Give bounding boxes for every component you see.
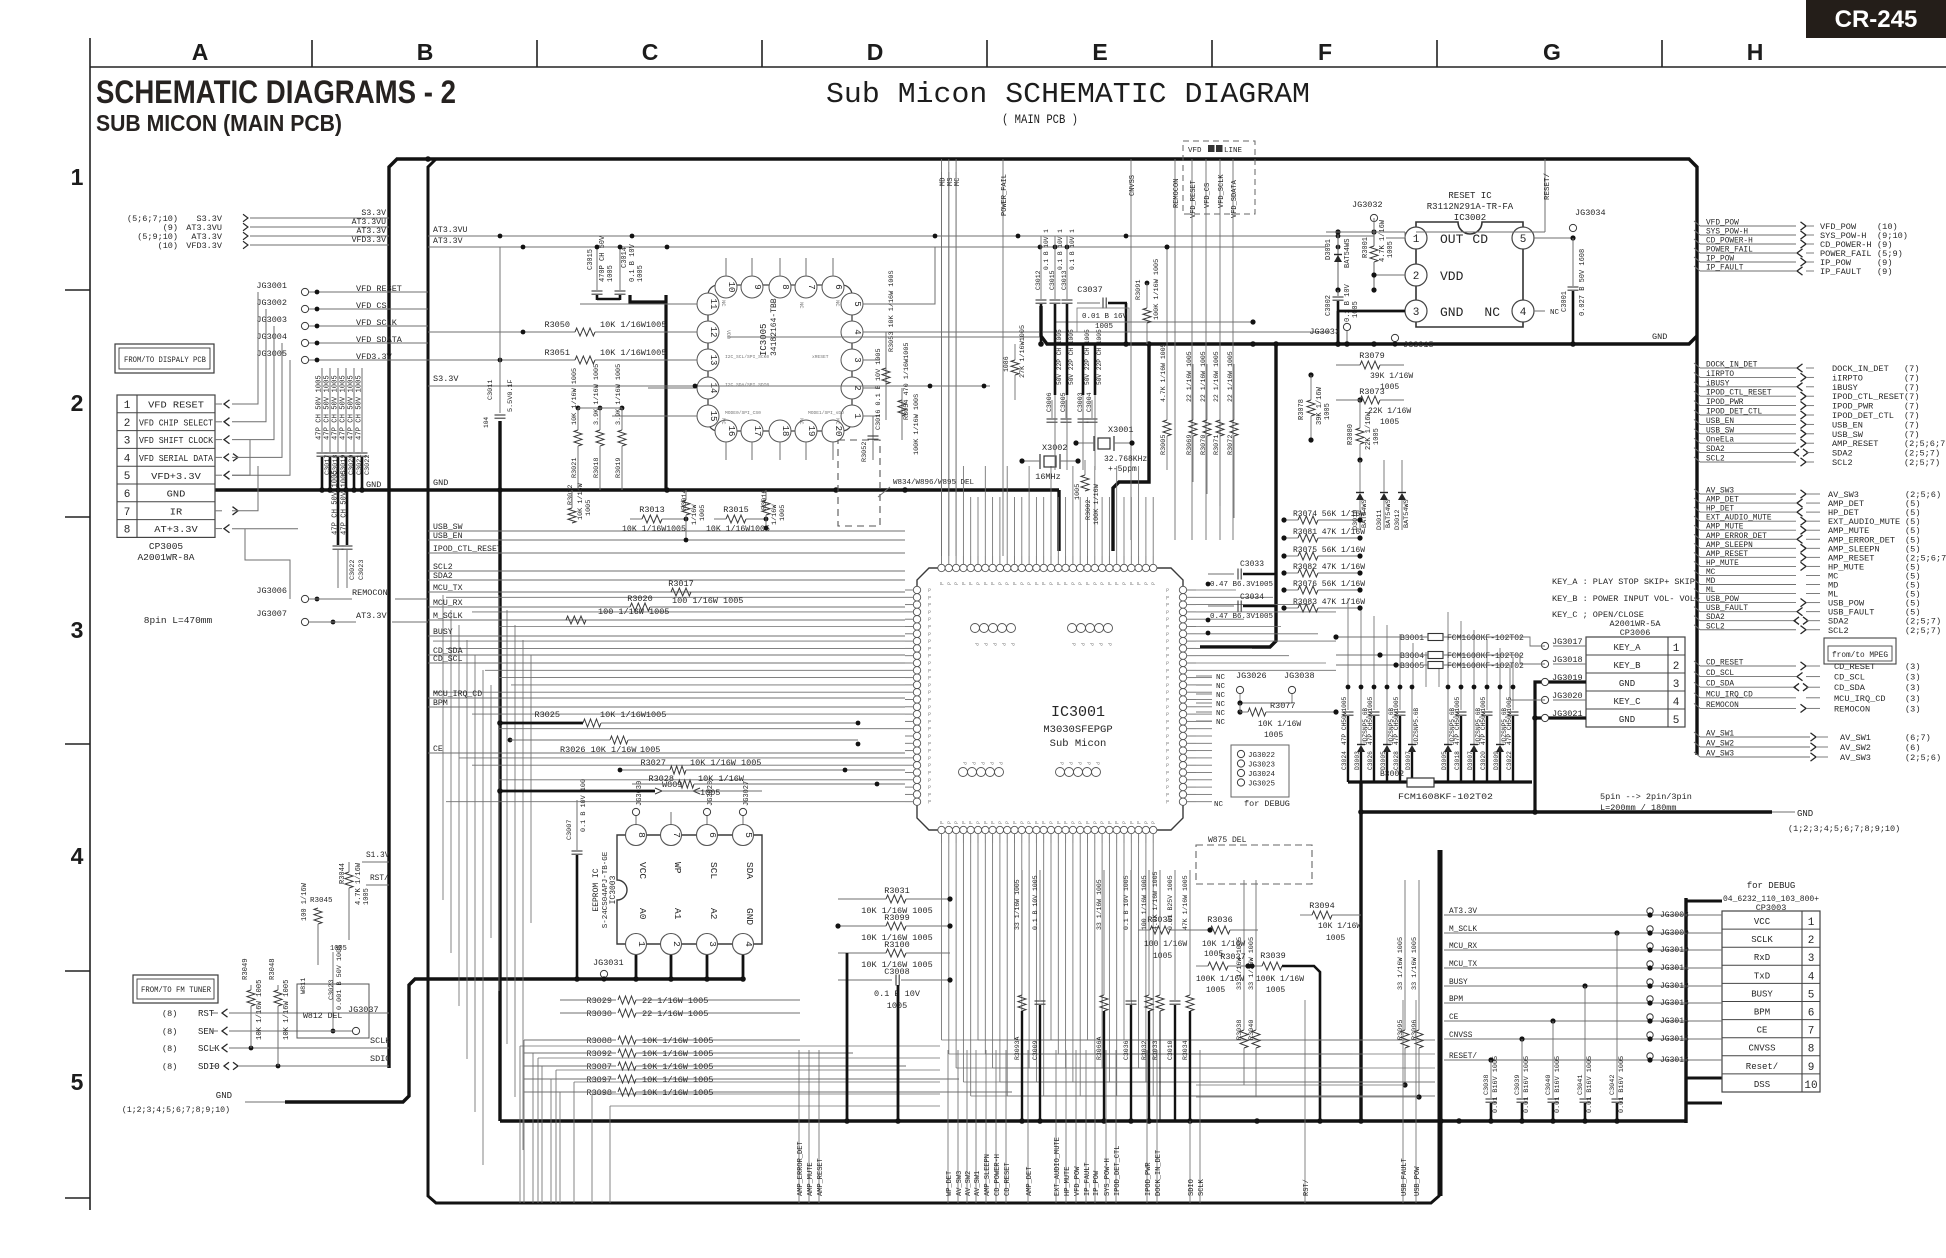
svg-text:P: P — [928, 661, 931, 667]
bus: diode array bottom rail y=782 — [1348, 780, 1407, 783]
svg-text:SYS_POW-H: SYS_POW-H — [1706, 229, 1748, 237]
svg-text:(8): (8) — [162, 1044, 177, 1054]
svg-text:P: P — [1093, 582, 1099, 585]
svg-text:C3014: C3014 — [621, 247, 629, 268]
pin count note 5pin 2pin/3pin — [1600, 792, 1692, 813]
IC3005 top pins 10-6 — [715, 258, 844, 298]
svg-text:10K 1/16W: 10K 1/16W — [1258, 720, 1301, 729]
ferrite bead B3002 — [1380, 770, 1493, 802]
svg-text:SCHEMATIC DIAGRAMS - 2: SCHEMATIC DIAGRAMS - 2 — [96, 74, 456, 110]
svg-text:B3002: B3002 — [1380, 770, 1404, 779]
svg-text:6: 6 — [124, 489, 131, 501]
svg-text:47P CH 50V 1005: 47P CH 50V 1005 — [332, 375, 340, 440]
svg-text:P: P — [1020, 821, 1026, 824]
svg-text:47P CH50V1005: 47P CH50V1005 — [1393, 696, 1400, 745]
svg-text:22 1/16W 1005: 22 1/16W 1005 — [1213, 351, 1220, 402]
svg-text:(8): (8) — [162, 1009, 177, 1019]
svg-text:C3015: C3015 — [1049, 270, 1056, 290]
IC3005 bottom pins 16-20 — [715, 420, 844, 460]
svg-text:0.001 B 50V 1005: 0.001 B 50V 1005 — [336, 945, 344, 1010]
svg-text:1005: 1005 — [1387, 241, 1395, 258]
svg-text:10: 10 — [1804, 1080, 1817, 1092]
IC U IC3002 RESET IC R3112N291A-TR-FA — [1416, 191, 1523, 327]
svg-text:RxD: RxD — [1754, 953, 1770, 963]
svg-text:P: P — [928, 749, 931, 755]
svg-text:NC: NC — [1214, 801, 1224, 809]
svg-text:USB_POW: USB_POW — [1706, 596, 1739, 604]
wire RST to bus A2 — [229, 1012, 389, 1014]
svg-text:1086: 1086 — [1003, 356, 1010, 372]
svg-text:SDA2: SDA2 — [1706, 614, 1725, 622]
resistors R3044 R3045 near FM tuner — [301, 852, 390, 1010]
svg-text:10K 1/16W 1005: 10K 1/16W 1005 — [256, 980, 264, 1040]
svg-text:P: P — [1166, 734, 1169, 740]
svg-text:MD: MD — [1706, 578, 1716, 586]
svg-text:C3037: C3037 — [1077, 285, 1103, 295]
svg-text:H: H — [1747, 39, 1764, 65]
svg-text:P: P — [1056, 582, 1062, 585]
svg-text:W812 DEL: W812 DEL — [303, 1012, 342, 1021]
svg-text:P: P — [1137, 821, 1143, 824]
svg-text:AV_SW3: AV_SW3 — [956, 1171, 964, 1196]
bus: DEBUG connector stubs — [1686, 901, 1722, 1103]
svg-text:D: D — [867, 39, 884, 65]
svg-text:C3023: C3023 — [358, 560, 366, 580]
resistor R3079 39K horizontal — [1336, 351, 1413, 392]
svg-text:P: P — [1166, 690, 1169, 696]
svg-text:3: 3 — [852, 357, 862, 362]
svg-text:10K 1/16W1005: 10K 1/16W1005 — [600, 710, 666, 720]
svg-text:P: P — [928, 705, 931, 711]
CR-245 model label box — [1806, 0, 1946, 38]
svg-text:AV_SW1: AV_SW1 — [974, 1171, 982, 1196]
svg-text:(3): (3) — [1905, 662, 1920, 672]
svg-text:1: 1 — [1808, 917, 1815, 929]
svg-text:P: P — [969, 821, 975, 824]
svg-text:1: 1 — [124, 400, 131, 412]
svg-text:P: P — [970, 762, 976, 765]
capacitors C3015 C3014 above IC3005 — [587, 235, 645, 300]
label W834/W896/W895 DEL — [878, 479, 975, 497]
resistor R3073 22K horizontal — [1336, 387, 1411, 427]
wires from B300x to KEY jumpers — [1462, 637, 1545, 700]
svg-text:VFD_SCLK: VFD_SCLK — [1218, 174, 1226, 208]
svg-text:(2;5;7): (2;5;7) — [1905, 626, 1941, 636]
svg-text:IPOD_PWR: IPOD_PWR — [1145, 1162, 1153, 1196]
svg-text:R3025: R3025 — [534, 710, 560, 720]
label box FROM/TO FM TUNER — [133, 975, 218, 1003]
svg-text:Sub Micon: Sub Micon — [1050, 738, 1107, 750]
svg-text:AT3.3V: AT3.3V — [433, 237, 463, 246]
svg-text:5.5V0.1F: 5.5V0.1F — [507, 379, 515, 412]
svg-text:R3096: R3096 — [1411, 1020, 1419, 1040]
svg-text:47P CH 50V 1005: 47P CH 50V 1005 — [332, 470, 340, 535]
svg-text:CD_POWER-H: CD_POWER-H — [994, 1154, 1002, 1196]
svg-text:REMOCON: REMOCON — [1706, 702, 1739, 710]
svg-text:R3026 10K 1/16W: R3026 10K 1/16W — [560, 745, 637, 755]
svg-text:18: 18 — [780, 426, 790, 437]
svg-text:NC: NC — [1216, 719, 1226, 727]
svg-text:AV_SW3: AV_SW3 — [1706, 488, 1734, 496]
DEBUG connector header labels — [1723, 881, 1819, 913]
svg-text:R3094: R3094 — [1309, 901, 1335, 911]
svg-text:22 1/16W 1005: 22 1/16W 1005 — [1227, 351, 1234, 402]
svg-text:R3049: R3049 — [242, 958, 250, 980]
svg-text:P: P — [1100, 821, 1106, 824]
svg-text:LINE: LINE — [1224, 147, 1243, 155]
svg-text:R3071: R3071 — [1213, 435, 1221, 455]
svg-text:JG3030: JG3030 — [636, 781, 644, 806]
svg-text:P: P — [1049, 821, 1055, 824]
IC3001 bottom pin circles — [938, 826, 1157, 833]
svg-text:P: P — [1078, 821, 1084, 824]
column boundary ticks — [312, 40, 1662, 67]
IC3001 inner test pads top — [971, 624, 1113, 647]
svg-text:8: 8 — [636, 832, 647, 838]
svg-text:IC3001: IC3001 — [1051, 704, 1105, 721]
svg-text:AMP_RESET: AMP_RESET — [817, 1158, 825, 1196]
svg-text:JG3007: JG3007 — [256, 609, 287, 619]
svg-text:NC: NC — [1216, 683, 1226, 691]
svg-text:NC: NC — [834, 418, 841, 425]
svg-text:CD_POWER-H: CD_POWER-H — [1706, 238, 1753, 246]
svg-text:C3023: C3023 — [328, 980, 336, 1000]
svg-text:FCM1608KF-102T02: FCM1608KF-102T02 — [1398, 792, 1493, 802]
svg-text:W811: W811 — [300, 978, 308, 994]
bus: DEBUG ground riser x=1686 — [1684, 898, 1687, 1123]
svg-text:3.9K 1/16W 1005: 3.9K 1/16W 1005 — [615, 364, 623, 425]
svg-text:22 1/16W 1005: 22 1/16W 1005 — [1186, 351, 1193, 402]
svg-text:GND: GND — [366, 480, 381, 490]
svg-text:1/16W: 1/16W — [691, 504, 699, 525]
svg-text:AMP_SLEEPN: AMP_SLEEPN — [984, 1154, 992, 1196]
svg-text:1005: 1005 — [363, 888, 371, 905]
svg-text:UDZSNP5.6B: UDZSNP5.6B — [1413, 708, 1420, 745]
svg-text:P: P — [940, 821, 946, 824]
svg-text:8: 8 — [780, 284, 790, 289]
EEPROM top pins 8-5 VCC WP SCL SDA — [626, 812, 756, 879]
svg-text:P: P — [1166, 683, 1169, 689]
svg-text:OUT: OUT — [1440, 232, 1464, 247]
svg-text:RESET/: RESET/ — [1449, 1053, 1477, 1061]
svg-text:EXT_AUDIO_MUTE: EXT_AUDIO_MUTE — [1706, 515, 1772, 523]
svg-text:WP: WP — [672, 862, 683, 874]
svg-text:1005: 1005 — [1266, 986, 1285, 995]
svg-text:R3005: R3005 — [1160, 435, 1168, 455]
thick cap drops below GND rail — [1055, 329, 1103, 470]
svg-text:R3097: R3097 — [586, 1075, 612, 1085]
svg-text:470P CH 50V: 470P CH 50V — [599, 235, 607, 282]
bus: GND rail right (y=812) to GND label — [1361, 810, 1772, 813]
svg-text:7: 7 — [806, 284, 816, 289]
svg-text:100 1/16W 1005: 100 1/16W 1005 — [598, 607, 669, 617]
svg-text:P: P — [961, 582, 967, 585]
svg-text:C3026: C3026 — [1367, 751, 1374, 770]
dashed box W875 DEL — [1196, 836, 1312, 884]
resistor R3091 100K pullup — [1135, 259, 1161, 344]
svg-text:4: 4 — [852, 329, 862, 334]
IC3002 pins — [1405, 227, 1560, 322]
svg-text:(9): (9) — [1877, 267, 1892, 277]
svg-text:10K 1/16W 1005: 10K 1/16W 1005 — [571, 368, 579, 425]
svg-text:( MAIN PCB ): ( MAIN PCB ) — [1002, 112, 1078, 127]
svg-text:MCU_IRQ_CD: MCU_IRQ_CD — [1706, 691, 1753, 699]
svg-text:VFD RESET: VFD RESET — [148, 400, 204, 411]
svg-text:P: P — [973, 643, 979, 646]
svg-text:P: P — [928, 617, 931, 623]
capacitor C3037 0.01 B 16V — [1077, 285, 1129, 344]
from/to MPEG label box — [1824, 638, 1896, 664]
svg-text:P: P — [1005, 582, 1011, 585]
capacitors C3006 C3005 C3003 C3004 — [1046, 392, 1098, 422]
svg-text:6: 6 — [1808, 1008, 1815, 1020]
svg-text:C3038: C3038 — [1483, 1075, 1491, 1095]
svg-text:R3053 10K 1/16W 100S: R3053 10K 1/16W 100S — [888, 270, 896, 352]
link W809 — [497, 780, 762, 794]
svg-text:A: A — [192, 39, 209, 65]
svg-text:0.1 B 10V 1: 0.1 B 10V 1 — [1043, 229, 1050, 270]
wire fan: IC3001 right side wires — [1196, 590, 1513, 802]
svg-text:1005: 1005 — [1380, 418, 1399, 427]
svg-text:P: P — [998, 821, 1004, 824]
IC3001 left pin circles — [913, 586, 920, 805]
right signal group CD bus — [1694, 660, 1920, 715]
svg-text:P: P — [1166, 646, 1169, 652]
svg-text:R3081 47K 1/16W: R3081 47K 1/16W — [1293, 528, 1365, 537]
svg-text:16: 16 — [726, 426, 736, 437]
svg-text:NC: NC — [1216, 674, 1226, 682]
svg-text:C3041: C3041 — [1577, 1075, 1585, 1095]
svg-text:SDIO: SDIO — [370, 1054, 390, 1064]
svg-text:IP_FAULT: IP_FAULT — [1706, 265, 1744, 273]
svg-text:0.01 B 16V: 0.01 B 16V — [1082, 313, 1128, 321]
svg-text:NC: NC — [834, 300, 841, 307]
resistor ladder R3005/R3069-R3072 22 ohm — [1160, 245, 1238, 518]
svg-text:P: P — [1058, 762, 1064, 765]
svg-text:P: P — [1166, 595, 1169, 601]
svg-text:P: P — [928, 756, 931, 762]
svg-text:Sub Micon SCHEMATIC DIAGRAM: Sub Micon SCHEMATIC DIAGRAM — [826, 78, 1310, 111]
svg-text:P: P — [928, 792, 931, 798]
page border: left border line — [89, 38, 91, 1210]
caps C3012 C3015 C3013 on GND rail — [1035, 229, 1076, 344]
svg-text:P: P — [1070, 643, 1076, 646]
svg-text:0.1 B 10V 1005: 0.1 B 10V 1005 — [1123, 875, 1130, 930]
svg-text:CD: CD — [1472, 232, 1488, 247]
svg-text:for DEBUG: for DEBUG — [1747, 881, 1796, 891]
IC U IC3001 M3030SFEPGP Sub Micon body — [917, 568, 1183, 830]
bus: left GND rail (y=490) from connector — [215, 488, 1059, 491]
svg-text:3: 3 — [1808, 953, 1815, 965]
svg-text:C3020: C3020 — [1480, 751, 1487, 770]
svg-text:SEN: SEN — [198, 1027, 214, 1037]
svg-text:34182164-TBB: 34182164-TBB — [770, 298, 779, 356]
rail S3.3V from bus A2 — [428, 374, 990, 388]
svg-text:R3050: R3050 — [544, 320, 570, 330]
svg-text:P: P — [928, 610, 931, 616]
svg-text:GND: GND — [1797, 809, 1813, 819]
svg-text:P: P — [1097, 643, 1103, 646]
connector CP3006 5-pin KEY table — [1586, 637, 1685, 727]
bus: diode-array rail riser x=1361 — [1359, 782, 1362, 1121]
crystal X3001 32.768KHz — [1073, 425, 1147, 474]
svg-text:CNVSS: CNVSS — [1129, 175, 1137, 196]
svg-text:SUB MICON (MAIN PCB): SUB MICON (MAIN PCB) — [96, 110, 342, 136]
svg-text:JG3012: JG3012 — [1660, 982, 1689, 991]
svg-text:GND: GND — [1619, 679, 1635, 689]
svg-text:JG3025: JG3025 — [1248, 781, 1276, 789]
svg-text:SCLK: SCLK — [370, 1036, 391, 1046]
svg-text:10: 10 — [726, 282, 736, 293]
svg-text:2: 2 — [1673, 661, 1680, 673]
svg-text:P: P — [1094, 762, 1100, 765]
svg-text:P: P — [954, 582, 960, 585]
svg-text:47P CH50V1005: 47P CH50V1005 — [1454, 696, 1461, 745]
IC3001 right pin stubs — [1166, 588, 1196, 806]
svg-text:USB_POW: USB_POW — [1414, 1166, 1422, 1196]
svg-text:VFD3.3V: VFD3.3V — [352, 236, 386, 245]
C3011 cap on thick feed — [483, 247, 515, 428]
svg-text:P: P — [1049, 582, 1055, 585]
svg-text:CNVSS: CNVSS — [1748, 1044, 1775, 1054]
svg-text:AT3.3V: AT3.3V — [356, 611, 388, 621]
svg-text:6: 6 — [707, 832, 718, 838]
svg-text:100K 1/16W: 100K 1/16W — [1093, 483, 1101, 525]
svg-text:C3004: C3004 — [1086, 392, 1093, 412]
svg-text:P: P — [1122, 582, 1128, 585]
svg-text:100K 1/16W: 100K 1/16W — [1256, 975, 1304, 984]
svg-text:(2;5;7): (2;5;7) — [1904, 458, 1940, 468]
svg-text:RST: RST — [198, 1009, 215, 1019]
svg-text:SCL2: SCL2 — [1706, 623, 1725, 631]
svg-text:P: P — [1086, 821, 1092, 824]
capacitor C3007 at EEPROM — [566, 779, 588, 982]
svg-text:P: P — [1093, 821, 1099, 824]
wire SEN to JG3037 — [229, 1030, 351, 1032]
svg-text:P: P — [928, 690, 931, 696]
svg-text:1: 1 — [1413, 234, 1420, 246]
svg-text:P: P — [947, 821, 953, 824]
svg-text:JG3037: JG3037 — [348, 1005, 379, 1015]
svg-text:NC: NC — [1216, 692, 1226, 700]
IC3001 left pin stubs and pin names — [905, 588, 931, 806]
svg-text:1005: 1005 — [1352, 301, 1360, 318]
svg-text:10K 1/16W 1005: 10K 1/16W 1005 — [642, 1088, 713, 1098]
svg-text:CD_SDA: CD_SDA — [1706, 681, 1734, 689]
svg-text:USB_EN: USB_EN — [1706, 418, 1734, 426]
svg-text:P: P — [1166, 668, 1169, 674]
svg-text:P: P — [998, 582, 1004, 585]
svg-text:IP_POW: IP_POW — [1706, 256, 1734, 264]
bus: frame left branch A2 / bottom rail / right riser to DEBUG — [428, 159, 1439, 1203]
svg-text:P: P — [1144, 582, 1150, 585]
svg-text:FCM1608KF-102T02: FCM1608KF-102T02 — [1447, 652, 1524, 661]
svg-text:JG3002: JG3002 — [256, 298, 287, 308]
svg-text:R3038: R3038 — [1236, 1020, 1244, 1040]
svg-text:47P CH 50V 1005: 47P CH 50V 1005 — [348, 375, 356, 440]
svg-text:P: P — [1166, 705, 1169, 711]
svg-text:100 1/16W 1005: 100 1/16W 1005 — [1141, 875, 1148, 930]
svg-text:R3029: R3029 — [586, 996, 612, 1006]
svg-text:(3): (3) — [1905, 673, 1920, 683]
svg-text:P: P — [983, 582, 989, 585]
ground hook for KEY table GND pins — [1532, 682, 1586, 815]
A2 fanout signal wires to IC3001 — [428, 523, 905, 754]
NC stubs right of IC3001 — [1196, 674, 1226, 727]
resistors R3050 R3051 to IC3005 — [428, 320, 697, 364]
svg-text:D3009: D3009 — [1493, 751, 1500, 770]
svg-text:0.01 B16V 1005: 0.01 B16V 1005 — [1554, 1056, 1562, 1113]
svg-text:4.7K 1/16W 1005: 4.7K 1/16W 1005 — [1152, 871, 1159, 930]
resistors R3052 R3053 R3054 right of IC3005 — [861, 270, 921, 462]
svg-text:CD_RESET: CD_RESET — [1004, 1162, 1012, 1196]
svg-text:P: P — [1071, 582, 1077, 585]
svg-text:10K 1/16W1005: 10K 1/16W1005 — [600, 320, 666, 330]
svg-text:P: P — [928, 625, 931, 631]
svg-text:1: 1 — [636, 941, 647, 947]
svg-text:CD_SDA: CD_SDA — [1834, 683, 1866, 693]
svg-text:P: P — [928, 676, 931, 682]
svg-text:CD_RESET: CD_RESET — [1706, 660, 1744, 668]
svg-text:AT3.3V: AT3.3V — [357, 227, 387, 236]
svg-text:47P CH 50V 1005: 47P CH 50V 1005 — [324, 375, 332, 440]
svg-text:A1: A1 — [672, 908, 683, 920]
svg-text:WP_DET: WP_DET — [946, 1171, 954, 1196]
right signal group amp/audio — [1694, 488, 1946, 636]
svg-text:P: P — [1151, 582, 1157, 585]
svg-text:iIRPTO: iIRPTO — [1706, 371, 1734, 379]
svg-text:P: P — [1129, 582, 1135, 585]
svg-text:C3002: C3002 — [1325, 295, 1333, 316]
svg-text:R3098: R3098 — [586, 1088, 612, 1098]
svg-text:5pin --> 2pin/3pin: 5pin --> 2pin/3pin — [1600, 792, 1692, 802]
svg-text:C3036: C3036 — [1123, 1040, 1130, 1060]
svg-text:104: 104 — [483, 417, 490, 428]
svg-text:P: P — [1042, 821, 1048, 824]
svg-text:4.7K 1/16W: 4.7K 1/16W — [1379, 219, 1387, 262]
svg-text:1005: 1005 — [1264, 731, 1283, 740]
svg-text:27K 1/16W1005: 27K 1/16W1005 — [1019, 325, 1027, 378]
svg-text:HP_DET: HP_DET — [1706, 506, 1734, 514]
svg-text:R3031: R3031 — [884, 886, 910, 896]
svg-text:R3039: R3039 — [1260, 951, 1286, 961]
svg-text:SCL2: SCL2 — [1828, 626, 1849, 636]
svg-text:JG3001: JG3001 — [256, 281, 287, 291]
bus: EEPROM ground rail y=979 with drop to FM-tuner GND rail — [285, 979, 745, 1102]
svg-text:P: P — [991, 582, 997, 585]
svg-text:R3048: R3048 — [269, 958, 277, 980]
capacitor C3002 0.1 B 10V 1005 — [1325, 283, 1360, 344]
svg-text:1: 1 — [71, 164, 84, 190]
svg-text:R3095: R3095 — [1397, 1020, 1405, 1040]
svg-text:P: P — [1166, 603, 1169, 609]
svg-text:P: P — [983, 821, 989, 824]
svg-text:R3034: R3034 — [1182, 1040, 1189, 1060]
top rail drop CNVSS — [1129, 159, 1137, 540]
svg-text:10K 1/16W 1005: 10K 1/16W 1005 — [642, 1036, 713, 1046]
svg-text:AV_SW2: AV_SW2 — [1840, 743, 1871, 753]
svg-text:1005: 1005 — [1074, 484, 1082, 500]
svg-text:47P CH 50V 1005: 47P CH 50V 1005 — [340, 375, 348, 440]
svg-text:P: P — [928, 800, 931, 806]
svg-text:GND: GND — [1440, 305, 1464, 320]
svg-text:MODE0/SPI_CS0: MODE0/SPI_CS0 — [725, 410, 761, 416]
svg-text:USB_FAULT: USB_FAULT — [1401, 1158, 1409, 1196]
svg-text:1005: 1005 — [779, 505, 787, 521]
svg-text:P: P — [1086, 582, 1092, 585]
svg-text:17: 17 — [752, 426, 762, 437]
svg-text:B3005: B3005 — [1400, 662, 1424, 671]
